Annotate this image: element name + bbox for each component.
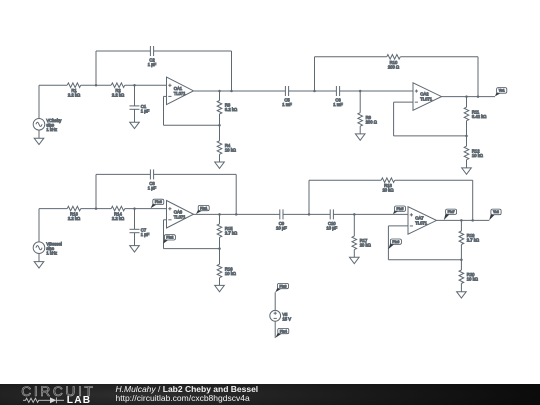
wire C2 down to OA1 output	[231, 51, 233, 91]
svg-text:20 kΩ: 20 kΩ	[360, 243, 371, 248]
ground (R4)	[215, 162, 225, 168]
resistor R16 10 k&#937;	[217, 264, 236, 278]
wire R1 to R2	[81, 84, 112, 86]
wire OA2- down	[393, 102, 395, 136]
flag Pin8	[275, 283, 288, 292]
capacitor C6 1 mF	[333, 86, 343, 107]
capacitor C1 1 &#181;F	[130, 104, 150, 114]
svg-text:1 µF: 1 µF	[141, 232, 150, 237]
svg-text:2.2 kΩ: 2.2 kΩ	[68, 216, 80, 221]
wire R18 row left	[309, 179, 381, 181]
wire OA2 output	[442, 96, 496, 98]
svg-text:15 V: 15 V	[282, 317, 291, 322]
voltage source VBessel (sine 1 kHz)	[33, 241, 62, 255]
svg-text:TL071: TL071	[174, 91, 187, 96]
wire V1 to ground	[38, 130, 40, 138]
wire R15 to feedback row	[219, 237, 221, 248]
CircuitLab logo	[0, 384, 110, 405]
wire junction to R16	[219, 249, 221, 265]
wire out to R15	[219, 214, 221, 224]
wire input to R1	[39, 84, 67, 86]
node OA6 out / C8	[235, 213, 238, 216]
svg-text:200 Ω: 200 Ω	[366, 119, 377, 124]
wire R10 row right	[400, 56, 478, 58]
svg-text:8.42 kΩ: 8.42 kΩ	[472, 114, 487, 119]
svg-text:10 kΩ: 10 kΩ	[472, 153, 483, 158]
node E (R13/R14/C8)	[95, 207, 98, 210]
wire OA6 feedback row	[164, 248, 220, 250]
flag Pin3	[151, 199, 164, 208]
wire C6 to OA2+	[340, 90, 413, 92]
flag Pin6	[388, 239, 401, 249]
wire R2 to OA1+	[125, 84, 167, 86]
resistor R12 10 k&#937;	[464, 146, 483, 160]
resistor R2 2.2 k&#937;	[111, 83, 125, 98]
flag Pin7	[444, 209, 457, 220]
wire C8 row left	[96, 173, 150, 175]
wire C8 down to OA6 output	[235, 174, 237, 214]
ground (C1)	[130, 122, 140, 128]
node R15/R16 junction	[218, 247, 221, 250]
resistor R3 8.2 k&#937;	[217, 101, 237, 115]
wire OA1 output to C5	[194, 90, 286, 92]
wire R17 to ground	[353, 250, 355, 258]
wire OA2- stub	[394, 101, 413, 103]
node B (R2/C1/OA1+)	[133, 84, 136, 87]
flag Pin1	[196, 205, 209, 214]
wire R11 to feedback row	[466, 121, 468, 136]
svg-text:Vo2: Vo2	[493, 210, 499, 214]
wire C8 row right	[154, 173, 237, 175]
output flag Vo2	[489, 209, 501, 220]
capacitor C10 10 &#181;F	[326, 209, 337, 230]
wire OA7- stub	[388, 225, 408, 227]
node OA7 out / R18	[471, 219, 474, 222]
wire R16 to ground	[219, 278, 221, 286]
svg-text:1 kHz: 1 kHz	[46, 250, 57, 255]
svg-text:10 µF: 10 µF	[326, 226, 337, 231]
wire node F down to C7	[134, 209, 136, 230]
node D (C6/R9/OA2+)	[359, 90, 362, 93]
svg-text:LAB: LAB	[67, 395, 92, 405]
wire out to R19	[460, 220, 462, 231]
wire OA6 output to C9	[194, 213, 280, 215]
wire node A up to C2 row	[95, 51, 97, 85]
resistor R19 2.7 k&#937;	[459, 231, 479, 245]
ground (R17)	[350, 257, 360, 263]
wire R13 to R14	[81, 208, 112, 210]
node OA1 out / C2	[230, 90, 233, 93]
capacitor C9 10 &#181;F	[276, 209, 287, 230]
svg-text:Pin6: Pin6	[392, 240, 399, 244]
wire OA7 output	[437, 219, 490, 221]
capacitor C2 1 &#181;F	[148, 46, 157, 67]
node G (C9/C10/R18)	[308, 213, 311, 216]
svg-text:1 µF: 1 µF	[148, 62, 157, 67]
wire junction to R20	[460, 260, 462, 270]
resistor R18 20 k&#937;	[381, 178, 395, 193]
resistor R13 2.2 k&#937;	[67, 206, 81, 221]
flag Pin4	[276, 328, 289, 337]
svg-text:Vo1: Vo1	[499, 89, 505, 93]
wire OA7- down	[387, 226, 389, 260]
wire R19 to feedback row	[460, 245, 462, 260]
wire junction to R12	[466, 136, 468, 146]
footer bar	[0, 384, 540, 405]
resistor R14 2.2 k&#937;	[111, 206, 125, 221]
svg-text:1 mF: 1 mF	[333, 102, 343, 107]
wire node B down to C1	[134, 85, 136, 106]
output flag Vo1	[495, 88, 507, 97]
node OA1 out / R3	[218, 90, 221, 93]
svg-text:200 Ω: 200 Ω	[388, 64, 399, 69]
wire OA1 feedback row	[164, 124, 220, 126]
node OA7 out / R19	[460, 219, 463, 222]
svg-text:Pin5: Pin5	[397, 207, 404, 211]
node C (C5/C6/R10)	[313, 90, 316, 93]
ground (V1)	[34, 138, 44, 144]
wire out to R11	[466, 97, 468, 108]
wire node E up to C8 row	[95, 174, 97, 208]
node OA2 out / R10	[477, 95, 480, 98]
wire node G up to R18 row	[308, 180, 310, 214]
node OA6 out / R15	[218, 213, 221, 216]
svg-text:2.2 kΩ: 2.2 kΩ	[68, 93, 80, 98]
wire R20 to ground	[460, 284, 462, 292]
wire OA2 feedback row	[394, 135, 467, 137]
ground (R16)	[215, 285, 225, 291]
op-amp OA1 TL071	[167, 77, 194, 105]
wire R3 to feedback row	[219, 114, 221, 125]
wire R14 to OA6+	[125, 208, 167, 210]
ground (V2)	[34, 262, 44, 268]
resistor R9 200 &#937;	[358, 113, 377, 127]
wire C2 row right	[154, 50, 232, 52]
svg-text:1 mF: 1 mF	[282, 102, 292, 107]
svg-text:Pin8: Pin8	[280, 284, 287, 288]
wire OA7 feedback row	[388, 259, 461, 261]
wire V1 to input row	[38, 85, 40, 118]
wire out to R3	[219, 91, 221, 101]
resistor R11 8.42 k&#937;	[464, 107, 486, 121]
wire input to R13	[39, 208, 67, 210]
voltage source VCheby (sine 1 kHz)	[33, 118, 62, 132]
svg-text:Pin3: Pin3	[155, 200, 162, 204]
wire R9 to ground	[359, 126, 361, 134]
svg-text:10 kΩ: 10 kΩ	[225, 147, 236, 152]
wire R4 to ground	[219, 154, 221, 162]
wire junction to R4	[219, 125, 221, 141]
wire OA1- stub	[164, 95, 167, 97]
svg-text:2.7 kΩ: 2.7 kΩ	[225, 230, 237, 235]
wire OA1- down	[163, 96, 165, 125]
wire R18 down to OA7 output	[472, 180, 474, 220]
svg-text:1 µF: 1 µF	[141, 109, 150, 114]
wire C7 to ground	[134, 233, 136, 246]
voltage source V5 15 V	[270, 310, 291, 321]
svg-text:TL071: TL071	[420, 97, 433, 102]
node R11/R12 junction	[465, 135, 468, 138]
ground (R9)	[355, 134, 365, 140]
resistor R20 10 k&#937;	[459, 270, 478, 284]
wire V5 to Pin4	[274, 321, 276, 338]
node R3/R4 junction	[218, 124, 221, 127]
op-amp OA7 TL071	[408, 207, 437, 235]
svg-text:Pin2: Pin2	[166, 236, 173, 240]
svg-text:10 kΩ: 10 kΩ	[225, 271, 236, 276]
flag Pin2	[163, 235, 175, 244]
svg-text:Pin1: Pin1	[200, 206, 207, 210]
wire R10 down to OA2 output	[477, 57, 479, 97]
svg-text:10 µF: 10 µF	[276, 226, 287, 231]
node R19/R20 junction	[460, 258, 463, 261]
op-amp OA6 TL071	[167, 201, 194, 229]
svg-text:Pin4: Pin4	[280, 329, 287, 333]
wire C2 row left	[96, 50, 150, 52]
resistor R1 2.2 k&#937;	[67, 83, 81, 98]
svg-text:Pin7: Pin7	[448, 210, 455, 214]
svg-text:2.7 kΩ: 2.7 kΩ	[467, 238, 479, 243]
wire C9 to C10	[283, 213, 330, 215]
wire node D down to R9	[359, 91, 361, 113]
wire R12 to ground	[466, 160, 468, 168]
wire R10 row left	[315, 56, 387, 58]
ground (R12)	[462, 168, 472, 174]
capacitor C8 1 &#181;F	[148, 169, 157, 190]
resistor R15 2.7 k&#937;	[217, 224, 237, 238]
svg-text:1 kHz: 1 kHz	[46, 127, 57, 132]
wire R18 row right	[395, 179, 473, 181]
resistor R17 20 k&#937;	[352, 236, 371, 250]
wire C10 to OA7+	[333, 213, 408, 215]
ground (R20)	[457, 292, 467, 298]
wire C1 to ground	[134, 109, 136, 122]
wire OA6- down	[163, 220, 165, 249]
wire V2 to ground	[38, 254, 40, 262]
resistor R4 10 k&#937;	[217, 141, 236, 155]
svg-text:TL071: TL071	[174, 214, 187, 219]
svg-text:1 µF: 1 µF	[148, 186, 157, 191]
node A (R1/R2/C2)	[95, 84, 98, 87]
flag Pin5	[393, 206, 406, 214]
svg-text:8.2 kΩ: 8.2 kΩ	[225, 107, 237, 112]
node OA2 out / R11	[465, 95, 468, 98]
node H (C10/R17/OA7+)	[353, 213, 356, 216]
wire OA6- stub	[164, 219, 167, 221]
svg-text:2.2 kΩ: 2.2 kΩ	[112, 93, 124, 98]
wire C5 to C6	[289, 90, 337, 92]
wire node C up to R10 row	[314, 57, 316, 91]
wire node H down to R17	[353, 214, 355, 236]
wire Pin8 to V5	[274, 292, 276, 310]
svg-text:20 kΩ: 20 kΩ	[382, 188, 393, 193]
resistor R10 200 &#937;	[387, 55, 401, 70]
op-amp OA2 TL071	[413, 83, 442, 111]
capacitor C5 1 mF	[282, 86, 292, 107]
svg-text:TL071: TL071	[415, 220, 428, 225]
wire V2 to input row	[38, 209, 40, 242]
capacitor C7 1 &#181;F	[130, 228, 150, 238]
svg-text:2.2 kΩ: 2.2 kΩ	[112, 216, 124, 221]
ground (C7)	[130, 246, 140, 252]
node F (R14/C7/OA6+)	[133, 207, 136, 210]
svg-text:10 kΩ: 10 kΩ	[467, 277, 478, 282]
